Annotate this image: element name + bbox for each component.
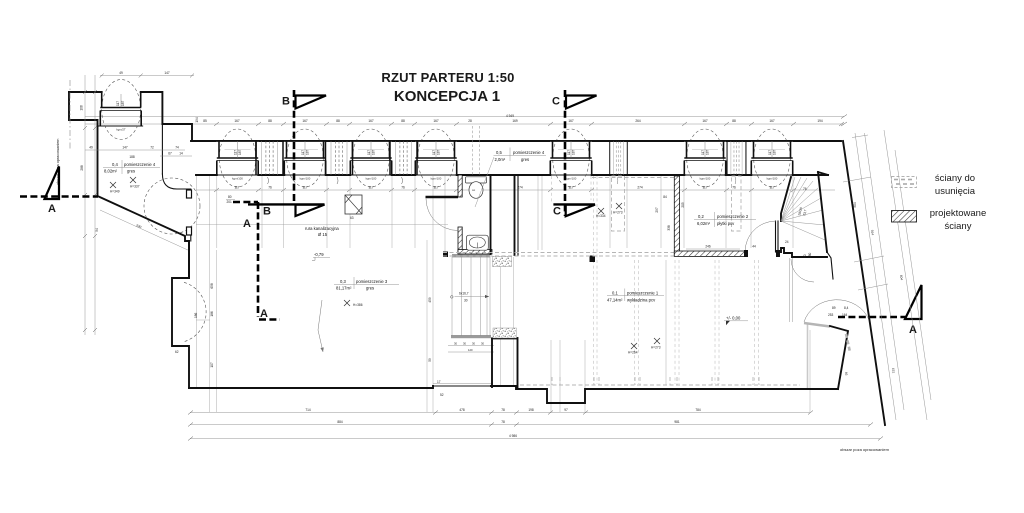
- speckle hatch boxes by stairwell: [493, 257, 512, 267]
- bottom dimension row 1: [190, 408, 810, 413]
- svg-text:117: 117: [769, 186, 774, 190]
- section A middle: [233, 202, 280, 320]
- svg-text:H=273: H=273: [613, 211, 623, 215]
- svg-text:2,0m²: 2,0m²: [495, 157, 506, 162]
- tick marks top chain: [214, 122, 844, 126]
- svg-text:88: 88: [401, 119, 405, 123]
- svg-text:604: 604: [899, 275, 904, 281]
- top-left block outline: [69, 92, 192, 278]
- svg-text:117: 117: [368, 186, 373, 190]
- svg-text:49: 49: [119, 71, 123, 75]
- level +-0,00: [724, 316, 748, 326]
- svg-text:147: 147: [122, 146, 128, 150]
- svg-text:164: 164: [842, 313, 848, 317]
- svg-text:pomieszczenie 3: pomieszczenie 3: [356, 279, 388, 284]
- svg-text:297: 297: [655, 207, 659, 213]
- removed wall dashed line under wall: [592, 177, 674, 179]
- window W7: [751, 129, 792, 187]
- pom2 inner dim 246: [667, 202, 756, 249]
- svg-text:117: 117: [116, 101, 120, 106]
- right wall inner face: [818, 172, 828, 252]
- window W3: [350, 129, 391, 187]
- section C top: [552, 90, 597, 216]
- svg-text:ściany: ściany: [945, 221, 972, 232]
- hall projection thin verticals: [197, 176, 811, 412]
- svg-text:pomieszczenie 4: pomieszczenie 4: [513, 150, 545, 155]
- walls-to-remove dashed band (middle): [443, 253, 674, 257]
- svg-text:59: 59: [428, 358, 432, 362]
- rura kanalizacyjna label: [305, 226, 339, 237]
- removed chimney columns: [612, 176, 742, 231]
- svg-text:658: 658: [210, 283, 214, 289]
- left dim ticks: [83, 90, 97, 332]
- section A dashed right: [838, 316, 906, 319]
- svg-text:914: 914: [870, 230, 875, 236]
- section C bottom: [553, 204, 595, 217]
- svg-text:47,14m²: 47,14m²: [607, 297, 623, 302]
- svg-text:187: 187: [121, 100, 125, 106]
- bottom dimension row 2: [190, 420, 870, 425]
- title RZUT PARTERU: [381, 70, 514, 105]
- svg-text:72: 72: [150, 146, 154, 150]
- chimney niche 2b: [390, 141, 417, 184]
- legend: walls to remove: [892, 173, 976, 197]
- svg-text:30: 30: [463, 341, 466, 345]
- svg-text:projektowane: projektowane: [930, 208, 987, 219]
- svg-text:4 986: 4 986: [509, 434, 517, 438]
- svg-text:274: 274: [637, 186, 643, 190]
- svg-text:76: 76: [401, 186, 405, 190]
- svg-text:188: 188: [129, 155, 135, 159]
- kanalizacja hatched box: [345, 195, 362, 220]
- svg-text:63: 63: [350, 216, 354, 220]
- svg-text:194: 194: [195, 117, 199, 123]
- H-marks room 0,4: [110, 177, 136, 188]
- svg-text:67: 67: [168, 152, 172, 156]
- svg-text:205: 205: [681, 202, 685, 208]
- svg-text:KONCEPCJA 1: KONCEPCJA 1: [394, 88, 500, 105]
- svg-text:30: 30: [464, 299, 468, 303]
- bathroom (pom. 0,5) walls: [458, 175, 492, 254]
- svg-text:89: 89: [832, 306, 836, 310]
- hall bottom wall: [189, 386, 838, 403]
- right lower rooms: [781, 248, 869, 389]
- bottom dimension row 3: [190, 434, 880, 439]
- H=334 / H=273 marks near C: [596, 203, 623, 218]
- chimney niche 2: [326, 141, 353, 184]
- room 0,4 label: [103, 160, 160, 174]
- svg-text:pomieszczenie 1: pomieszczenie 1: [627, 291, 659, 296]
- svg-text:H=264: H=264: [628, 351, 638, 355]
- door arc top-left room: [144, 178, 200, 235]
- svg-text:88: 88: [336, 119, 340, 123]
- svg-text:obszar poza opracowaniem: obszar poza opracowaniem: [840, 447, 890, 452]
- svg-text:28: 28: [468, 119, 472, 123]
- svg-text:4 949: 4 949: [506, 114, 514, 118]
- svg-text:167: 167: [368, 119, 374, 123]
- svg-text:90: 90: [803, 254, 807, 258]
- svg-text:201: 201: [227, 200, 233, 204]
- svg-text:8,02m²: 8,02m²: [104, 169, 118, 174]
- svg-text:76: 76: [803, 187, 807, 191]
- svg-text:88: 88: [732, 119, 736, 123]
- ticks on under-wall chain: [214, 188, 796, 192]
- leader arrow room3: [318, 300, 323, 352]
- svg-text:30: 30: [472, 341, 475, 345]
- svg-text:167: 167: [769, 119, 775, 123]
- removed wall gray vertical right: [807, 323, 809, 388]
- window W4: [415, 129, 456, 187]
- svg-text:88: 88: [268, 119, 272, 123]
- svg-text:167: 167: [234, 119, 240, 123]
- main north wall outer face: [191, 140, 841, 142]
- svg-text:167: 167: [433, 119, 439, 123]
- svg-text:6,02m²: 6,02m²: [697, 221, 711, 226]
- room 0,1 label: [607, 289, 664, 303]
- bottom notch dims: [175, 312, 444, 397]
- svg-text:C: C: [553, 206, 561, 218]
- top-left window niche: [100, 80, 141, 140]
- left margin dims: [80, 75, 100, 335]
- svg-text:117: 117: [568, 186, 573, 190]
- svg-text:0,4: 0,4: [112, 162, 118, 167]
- pomieszczenie 2 door: [744, 221, 780, 257]
- svg-text:194: 194: [817, 119, 823, 123]
- svg-text:478: 478: [459, 408, 465, 412]
- svg-text:A: A: [243, 218, 251, 230]
- svg-text:264: 264: [635, 119, 641, 123]
- svg-text:0,3: 0,3: [340, 279, 346, 284]
- svg-text:H=386: H=386: [353, 303, 363, 307]
- svg-text:RZUT PARTERU 1:50: RZUT PARTERU 1:50: [381, 70, 514, 85]
- svg-text:76: 76: [732, 186, 736, 190]
- svg-text:H=334: H=334: [596, 214, 606, 218]
- svg-text:płytki pcv: płytki pcv: [717, 221, 735, 226]
- legend: designed walls: [892, 208, 987, 232]
- svg-text:74: 74: [175, 146, 179, 150]
- svg-text:169: 169: [512, 119, 518, 123]
- svg-text:84: 84: [663, 195, 667, 199]
- svg-text:0,5: 0,5: [496, 150, 502, 155]
- obszar boundary diagonals right: [843, 130, 931, 420]
- svg-text:338: 338: [667, 225, 671, 231]
- bottom row ticks: [188, 411, 883, 441]
- svg-text:108: 108: [80, 105, 84, 111]
- svg-text:80: 80: [228, 195, 232, 199]
- svg-text:30: 30: [454, 341, 457, 345]
- svg-text:85: 85: [203, 119, 207, 123]
- svg-text:gres: gres: [521, 157, 529, 162]
- svg-text:459: 459: [428, 297, 432, 303]
- svg-text:C: C: [552, 96, 560, 108]
- property boundary dashed left: [69, 80, 71, 150]
- svg-text:A: A: [48, 203, 56, 215]
- section B top: [282, 90, 326, 204]
- svg-text:gres: gres: [127, 169, 135, 174]
- window W2: [284, 129, 325, 187]
- hall left wall and bay: [172, 241, 206, 388]
- svg-text:24: 24: [785, 240, 789, 244]
- section A marker left: [20, 167, 98, 216]
- svg-text:117: 117: [234, 186, 239, 190]
- door jamb blocks on removed band: [590, 256, 596, 263]
- svg-text:6x16,7: 6x16,7: [459, 292, 469, 296]
- staircase (straight flight): [433, 254, 494, 386]
- svg-text:288: 288: [80, 165, 84, 171]
- svg-text:117: 117: [433, 186, 438, 190]
- svg-text:167: 167: [302, 119, 308, 123]
- dimension chain under wall: [196, 186, 835, 190]
- svg-text:gres: gres: [366, 286, 374, 291]
- H=264 / H=273 marks hall: [628, 338, 661, 355]
- svg-text:ściany do: ściany do: [935, 173, 975, 184]
- svg-text:A: A: [260, 308, 268, 320]
- svg-text:14: 14: [179, 152, 183, 156]
- svg-text:186: 186: [194, 312, 198, 318]
- room 0,3 label: [334, 277, 399, 291]
- svg-text:117: 117: [702, 186, 707, 190]
- dims inside block: [85, 146, 192, 160]
- chimney niche 1: [256, 141, 283, 184]
- svg-text:186: 186: [210, 311, 214, 317]
- svg-text:180: 180: [808, 252, 812, 258]
- svg-text:pomieszczenie 2: pomieszczenie 2: [717, 214, 749, 219]
- svg-text:+/- 0,00: +/- 0,00: [726, 316, 741, 321]
- svg-text:714: 714: [305, 408, 311, 412]
- right diagonal dims: [785, 230, 904, 376]
- hall horizontal thin line: [196, 224, 448, 226]
- svg-text:52: 52: [440, 393, 444, 397]
- main north wall inner face (piers): [196, 174, 828, 176]
- section A marker right: [905, 285, 922, 336]
- winder stairs: [781, 177, 825, 240]
- svg-text:Ø 15: Ø 15: [318, 232, 328, 237]
- svg-text:97: 97: [564, 408, 568, 412]
- svg-text:0,1: 0,1: [612, 291, 618, 296]
- svg-text:H=349: H=349: [110, 190, 120, 194]
- svg-text:B: B: [263, 206, 271, 218]
- gray removed wall piece right: [846, 334, 850, 352]
- svg-text:78: 78: [501, 420, 505, 424]
- walls-to-remove dashed band (bottom): [520, 377, 800, 385]
- svg-text:-0,79: -0,79: [314, 252, 324, 257]
- svg-text:167: 167: [568, 119, 574, 123]
- svg-text:504: 504: [853, 202, 857, 208]
- svg-text:rura kanalizacyjna: rura kanalizacyjna: [305, 226, 339, 231]
- removed wall projection dashed pairs: [552, 176, 759, 384]
- bathroom leader + label 0,5: [475, 148, 546, 208]
- svg-text:147: 147: [164, 71, 170, 75]
- svg-text:784: 784: [695, 408, 701, 412]
- svg-text:94: 94: [95, 228, 99, 232]
- left hall rotated dims: [210, 195, 857, 368]
- svg-text:81,17m²: 81,17m²: [336, 286, 352, 291]
- svg-text:44: 44: [752, 245, 756, 249]
- svg-text:198: 198: [528, 408, 534, 412]
- section B bottom: [248, 204, 325, 217]
- svg-text:usunięcia: usunięcia: [935, 186, 976, 197]
- svg-text:kgm/2T: kgm/2T: [116, 128, 126, 132]
- window W1: [217, 129, 258, 187]
- svg-text:884: 884: [337, 420, 343, 424]
- svg-text:78: 78: [501, 408, 505, 412]
- svg-text:151: 151: [891, 368, 896, 374]
- svg-text:8,4: 8,4: [844, 306, 849, 310]
- svg-text:117: 117: [302, 186, 307, 190]
- svg-text:pomieszczenie 4: pomieszczenie 4: [124, 162, 156, 167]
- svg-text:981: 981: [674, 420, 680, 424]
- svg-text:62: 62: [175, 350, 179, 354]
- window W5: [550, 129, 591, 187]
- svg-text:253: 253: [828, 313, 834, 317]
- svg-text:0,2: 0,2: [698, 214, 704, 219]
- svg-text:wykładzina pcv: wykładzina pcv: [627, 297, 656, 302]
- right outer diagonal wall: [843, 141, 885, 425]
- svg-text:49: 49: [89, 146, 93, 150]
- window W6: [684, 129, 725, 187]
- stairwell wall right of stairs: [492, 175, 518, 389]
- toilet: [466, 126, 487, 198]
- svg-text:107: 107: [210, 362, 214, 368]
- H=386 mark: [344, 300, 363, 307]
- svg-text:167: 167: [702, 119, 708, 123]
- pomieszczenie 2 label: [694, 212, 756, 227]
- bathroom door: [426, 197, 459, 231]
- door label 80/201: [226, 195, 235, 204]
- washbasin: [466, 235, 488, 250]
- svg-text:B: B: [282, 96, 290, 108]
- chimney niche 3: [610, 141, 628, 184]
- svg-text:120: 120: [468, 348, 473, 352]
- top dimension chain: [85, 71, 847, 126]
- pomieszczenie 2 walls: [674, 176, 745, 256]
- svg-text:246: 246: [705, 245, 711, 249]
- chimney niche 4: [727, 141, 746, 184]
- svg-text:76: 76: [268, 186, 272, 190]
- svg-text:H=337: H=337: [130, 185, 140, 189]
- svg-text:H=273: H=273: [651, 346, 661, 350]
- svg-text:30: 30: [481, 341, 484, 345]
